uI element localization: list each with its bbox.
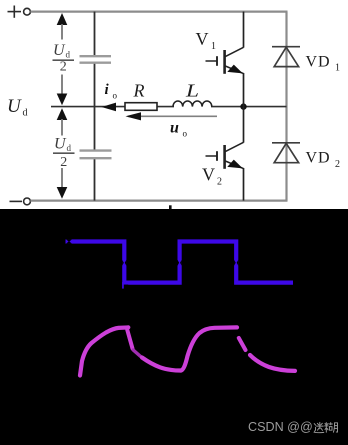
diode VD1 (272, 47, 300, 67)
terminal minus (negative input) (10, 198, 31, 205)
svg-text:d: d (67, 143, 72, 153)
label V2 (202, 165, 222, 188)
tick mark at black band edge (169, 205, 172, 209)
voltage annotation arrow lower Ud/2 (57, 108, 68, 199)
voltage annotation arrow upper Ud/2 (57, 13, 68, 105)
svg-text:VD: VD (306, 150, 331, 167)
label Ud (7, 96, 28, 119)
label VD1 (306, 54, 341, 74)
right vertical wire (diode branch) (285, 12, 287, 201)
svg-text:U: U (53, 42, 66, 59)
watermark glyph mi (314, 422, 324, 432)
svg-text:U: U (7, 96, 22, 117)
svg-text:2: 2 (60, 155, 67, 170)
resistor R (125, 103, 157, 111)
label V1 (196, 29, 217, 52)
transistor V2 (IGBT) (206, 107, 244, 201)
square wave start arrow notch (66, 239, 72, 243)
top wire (30, 11, 287, 13)
svg-text:1: 1 (211, 41, 216, 52)
svg-text:L: L (185, 80, 199, 101)
inductor L (173, 101, 212, 107)
svg-text:V: V (202, 165, 215, 185)
label Ud/2 upper (53, 42, 75, 74)
svg-text:2: 2 (60, 59, 67, 74)
background white upper area (0, 0, 348, 209)
voltage arrow uo (126, 112, 218, 120)
svg-text:R: R (133, 81, 145, 101)
capacitor C2 (80, 151, 112, 159)
label uo (170, 120, 188, 139)
svg-text:VD: VD (306, 54, 331, 71)
node junction dot (240, 103, 246, 109)
current arrow io (102, 103, 117, 112)
transistor V1 (IGBT) (206, 12, 244, 107)
svg-text:o: o (113, 91, 118, 101)
label VD2 (306, 150, 341, 171)
svg-text:o: o (183, 129, 188, 139)
svg-text:d: d (66, 50, 71, 60)
waveform io current curve (80, 327, 295, 375)
svg-text:u: u (170, 120, 179, 137)
svg-text:1: 1 (335, 63, 340, 74)
svg-text:CSDN @@: CSDN @@ (248, 420, 313, 434)
waveform uo square wave (66, 242, 294, 283)
background black lower band (0, 209, 348, 445)
svg-text:d: d (23, 108, 28, 119)
terminal plus (positive input) (8, 6, 31, 18)
capacitor branch vertical wire (94, 12, 96, 201)
square wave mid-edge notches (122, 260, 238, 266)
svg-text:V: V (196, 29, 209, 49)
capacitor C1 (80, 56, 112, 63)
watermark glyph hu (325, 423, 338, 433)
svg-text:2: 2 (217, 177, 222, 188)
svg-text:U: U (54, 136, 67, 153)
middle output wire (51, 106, 287, 108)
label Ud/2 lower (53, 136, 75, 171)
diode VD2 (272, 143, 300, 163)
svg-text:2: 2 (335, 159, 340, 170)
square wave corner arrow mark (123, 282, 128, 290)
bottom wire (30, 200, 287, 202)
label io (105, 82, 118, 101)
